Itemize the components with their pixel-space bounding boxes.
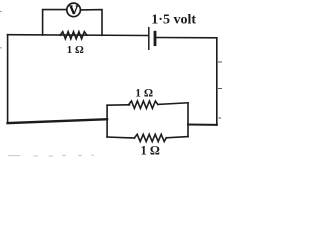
battery B1 long plate	[148, 28, 150, 50]
svg-text:1 Ω: 1 Ω	[67, 44, 84, 56]
wire right of battery	[156, 37, 217, 39]
voltmeter V letter	[69, 6, 78, 14]
wire voltmeter loop right	[81, 10, 102, 36]
svg-text:1 Ω: 1 Ω	[135, 88, 153, 100]
wire right vertical	[216, 38, 218, 125]
resistor R3 1 ohm (parallel bottom)	[134, 134, 166, 141]
wire left vertical	[7, 35, 9, 124]
resistor R2 1 ohm (parallel top)	[129, 101, 158, 108]
wire stub box to right wire	[188, 124, 217, 126]
wire box bottom-right segment	[166, 137, 188, 138]
voltmeter V body	[67, 3, 81, 17]
battery B1 short plate	[154, 32, 157, 45]
svg-text:1 Ω: 1 Ω	[141, 144, 160, 158]
node parallel box right vertical	[187, 103, 189, 137]
svg-text:1·5 volt: 1·5 volt	[151, 13, 196, 28]
wire voltmeter loop left	[43, 10, 67, 36]
wire box bottom-left segment	[107, 137, 134, 138]
node parallel box left vertical	[106, 105, 108, 137]
resistor R1 1 ohm (series, top)	[60, 32, 87, 39]
wire bottom main	[8, 119, 108, 123]
wire box top-right segment	[158, 103, 188, 105]
wire top-left horizontal	[8, 34, 149, 37]
wire box top-left segment	[107, 104, 129, 106]
